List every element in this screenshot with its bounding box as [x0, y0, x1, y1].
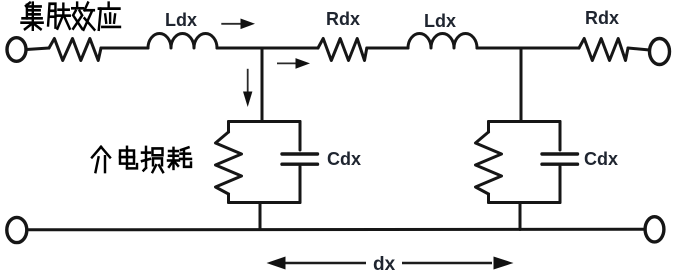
- svg-text:dx: dx: [373, 254, 396, 275]
- svg-text:Cdx: Cdx: [327, 149, 361, 169]
- svg-text:Ldx: Ldx: [165, 10, 197, 30]
- svg-text:Cdx: Cdx: [584, 149, 618, 169]
- svg-text:Rdx: Rdx: [326, 9, 360, 29]
- svg-text:Rdx: Rdx: [585, 8, 619, 28]
- svg-text:Ldx: Ldx: [424, 11, 456, 31]
